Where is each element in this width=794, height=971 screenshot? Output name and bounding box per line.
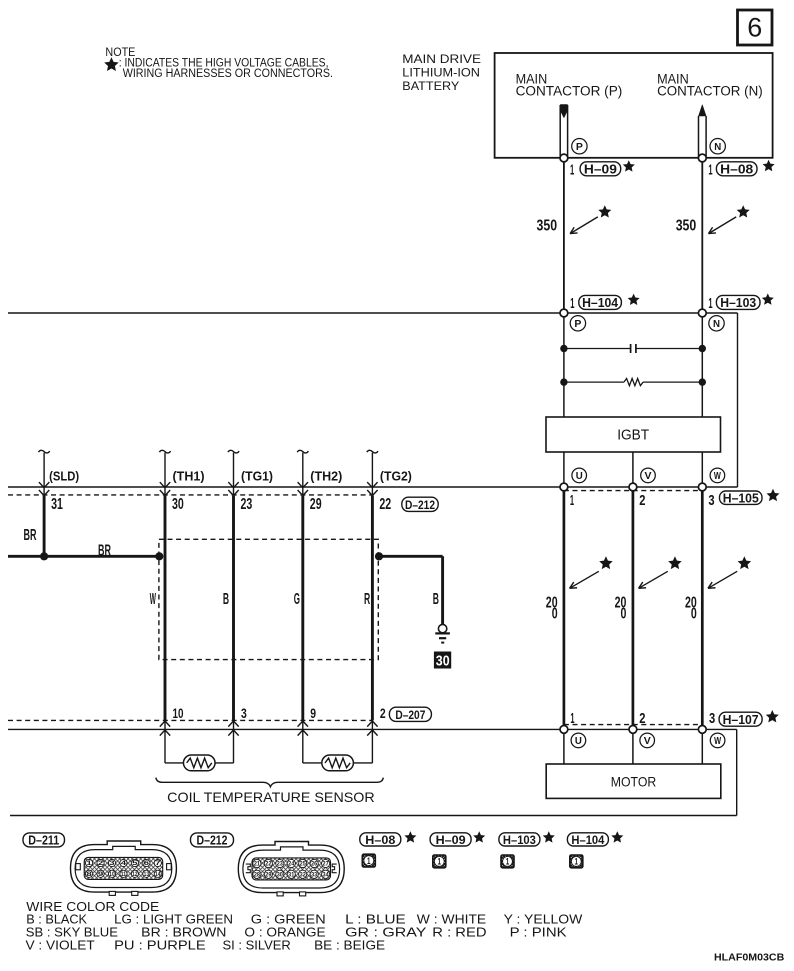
- svg-text:32: 32: [300, 871, 307, 878]
- svg-text:WIRING HARNESSES OR CONNECTORS: WIRING HARNESSES OR CONNECTORS.: [123, 68, 333, 80]
- svg-text:3: 3: [709, 710, 715, 727]
- svg-text:BR : BROWN: BR : BROWN: [141, 926, 226, 940]
- svg-text:H–105: H–105: [723, 491, 759, 505]
- svg-text:34: 34: [323, 871, 330, 878]
- svg-text:3: 3: [109, 860, 115, 867]
- svg-text:H–107: H–107: [723, 713, 759, 727]
- svg-text:BR: BR: [24, 527, 37, 544]
- svg-text:9: 9: [98, 871, 104, 878]
- svg-text:9: 9: [310, 705, 316, 721]
- svg-text:(TG1): (TG1): [241, 470, 273, 484]
- svg-text:V: V: [644, 735, 651, 747]
- svg-text:CONTACTOR (N): CONTACTOR (N): [657, 83, 763, 98]
- svg-text:(SLD): (SLD): [49, 470, 79, 484]
- svg-text:26: 26: [311, 861, 318, 868]
- svg-text:24: 24: [288, 861, 295, 868]
- svg-text:B: B: [433, 591, 439, 608]
- svg-text:30: 30: [277, 871, 284, 878]
- svg-text:1: 1: [708, 295, 712, 312]
- svg-text:D–211: D–211: [28, 834, 59, 848]
- svg-text:31: 31: [288, 871, 295, 878]
- svg-text:MAIN DRIVE: MAIN DRIVE: [402, 54, 481, 66]
- svg-text:13: 13: [144, 871, 150, 878]
- svg-text:14: 14: [155, 871, 161, 878]
- svg-text:G : GREEN: G : GREEN: [251, 913, 326, 927]
- svg-text:2: 2: [639, 492, 645, 509]
- svg-text:350: 350: [537, 218, 558, 235]
- svg-text:5: 5: [132, 860, 138, 867]
- svg-text:O : ORANGE: O : ORANGE: [244, 926, 325, 940]
- svg-text:H–08: H–08: [720, 163, 753, 177]
- svg-text:11: 11: [121, 871, 127, 878]
- svg-text:23: 23: [277, 861, 284, 868]
- svg-text:10: 10: [173, 705, 184, 721]
- svg-text:6: 6: [144, 860, 150, 867]
- svg-text:LG : LIGHT GREEN: LG : LIGHT GREEN: [114, 913, 233, 927]
- svg-text:BR: BR: [98, 542, 111, 559]
- svg-text:MOTOR: MOTOR: [611, 773, 657, 789]
- svg-text:N: N: [713, 318, 720, 330]
- svg-text:21: 21: [254, 861, 261, 868]
- svg-text:6: 6: [747, 13, 762, 43]
- svg-text:25: 25: [300, 861, 307, 868]
- svg-text:350: 350: [676, 218, 697, 235]
- svg-text:27: 27: [323, 861, 330, 868]
- svg-text:P: P: [576, 141, 583, 153]
- svg-text:R: R: [364, 591, 370, 608]
- svg-text:22: 22: [379, 496, 391, 513]
- svg-text:BATTERY: BATTERY: [402, 81, 459, 93]
- svg-text:SI : SILVER: SI : SILVER: [223, 939, 291, 953]
- svg-text:1: 1: [506, 857, 510, 867]
- svg-text:12: 12: [132, 871, 138, 878]
- svg-text:7: 7: [155, 860, 161, 867]
- svg-text:WIRE COLOR CODE: WIRE COLOR CODE: [26, 899, 159, 914]
- svg-text:30: 30: [436, 653, 450, 669]
- svg-text:1: 1: [570, 162, 574, 179]
- svg-text:U: U: [575, 735, 582, 747]
- svg-text:V : VIOLET: V : VIOLET: [26, 939, 96, 953]
- svg-text:8: 8: [86, 871, 92, 878]
- svg-text:GR : GRAY: GR : GRAY: [345, 926, 427, 940]
- svg-text:W: W: [150, 591, 157, 608]
- svg-text:D–212: D–212: [197, 834, 228, 848]
- svg-text:0: 0: [691, 606, 697, 623]
- svg-text:H–103: H–103: [720, 296, 756, 310]
- svg-text:N: N: [714, 141, 721, 153]
- svg-text:31: 31: [51, 496, 63, 513]
- svg-text:H–104: H–104: [582, 296, 618, 310]
- svg-text:P: P: [574, 318, 581, 330]
- svg-text:1: 1: [570, 492, 574, 509]
- svg-text:29: 29: [310, 496, 322, 513]
- svg-text:H–103: H–103: [503, 833, 536, 847]
- svg-text:2: 2: [639, 710, 645, 727]
- svg-text:BE : BEIGE: BE : BEIGE: [314, 939, 385, 953]
- svg-text:33: 33: [311, 871, 318, 878]
- svg-text:29: 29: [265, 871, 272, 878]
- svg-text:22: 22: [265, 861, 272, 868]
- svg-text:28: 28: [254, 871, 261, 878]
- svg-text:PU : PURPLE: PU : PURPLE: [114, 939, 206, 953]
- svg-text:P : PINK: P : PINK: [510, 926, 568, 940]
- svg-text:3: 3: [241, 705, 247, 721]
- svg-text:H–104: H–104: [571, 833, 604, 847]
- svg-text:B : BLACK: B : BLACK: [26, 913, 87, 927]
- svg-text:0: 0: [621, 606, 627, 623]
- svg-text:1: 1: [708, 162, 712, 179]
- svg-text:V: V: [645, 470, 652, 482]
- svg-text:1: 1: [438, 857, 442, 867]
- svg-text:3: 3: [708, 492, 714, 509]
- svg-text:23: 23: [241, 496, 253, 513]
- svg-text:SB : SKY BLUE: SB : SKY BLUE: [26, 926, 118, 940]
- svg-text:CONTACTOR (P): CONTACTOR (P): [516, 83, 623, 98]
- svg-text:10: 10: [109, 871, 115, 878]
- svg-text:30: 30: [172, 496, 184, 513]
- svg-text:IGBT: IGBT: [617, 427, 649, 444]
- svg-text:1: 1: [570, 710, 574, 727]
- svg-text:LITHIUM-ION: LITHIUM-ION: [402, 68, 480, 80]
- svg-text:2: 2: [380, 705, 386, 721]
- svg-text:1: 1: [570, 295, 574, 312]
- svg-text:W: W: [714, 735, 721, 747]
- svg-text:H–09: H–09: [584, 163, 617, 177]
- svg-text:D–212: D–212: [405, 498, 435, 512]
- svg-text:W : WHITE: W : WHITE: [417, 913, 486, 927]
- svg-text:1: 1: [575, 857, 579, 867]
- svg-text:R : RED: R : RED: [432, 926, 486, 940]
- svg-text:W: W: [714, 470, 721, 482]
- svg-text:D–207: D–207: [395, 708, 425, 722]
- svg-text:G: G: [294, 591, 300, 608]
- svg-text:(TH1): (TH1): [173, 470, 205, 484]
- svg-text:1: 1: [367, 856, 371, 866]
- svg-text:(TH2): (TH2): [310, 470, 342, 484]
- svg-text:B: B: [223, 591, 229, 608]
- svg-text:(TG2): (TG2): [380, 470, 412, 484]
- svg-text:Y : YELLOW: Y : YELLOW: [504, 913, 583, 927]
- svg-text:0: 0: [552, 606, 558, 623]
- svg-text:U: U: [576, 470, 583, 482]
- svg-text:H–08: H–08: [365, 833, 395, 847]
- svg-text:COIL TEMPERATURE SENSOR: COIL TEMPERATURE SENSOR: [167, 789, 374, 805]
- svg-text:2: 2: [98, 860, 104, 867]
- svg-text:H–09: H–09: [436, 833, 466, 847]
- svg-text:L : BLUE: L : BLUE: [345, 913, 406, 927]
- svg-text:1: 1: [86, 860, 92, 867]
- svg-text:4: 4: [121, 860, 127, 867]
- svg-text:HLAF0M03CB: HLAF0M03CB: [714, 951, 785, 963]
